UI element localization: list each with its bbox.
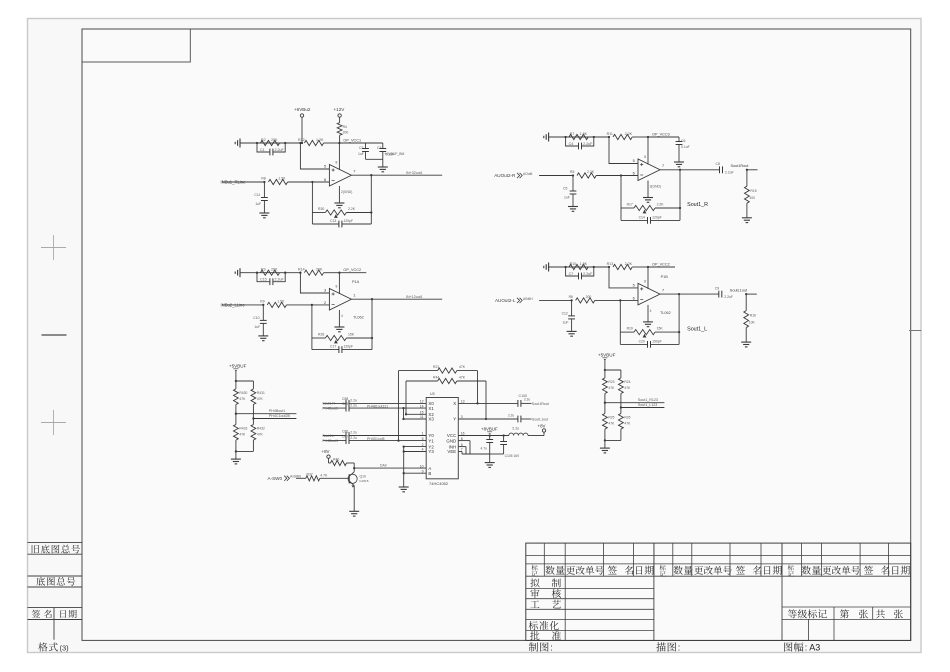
capacitor C88 2.2u (X0 input) (323, 402, 346, 404)
wire divL tap2 (253, 418, 296, 420)
svg-text:Sout1-R: Sout1-R (322, 402, 335, 406)
resistor R4 200 (337, 123, 342, 136)
wire amp1 to pin- (288, 181, 330, 183)
label 第张 (840, 609, 849, 618)
wire amp3 output (351, 298, 442, 300)
svg-text:TL062: TL062 (353, 316, 364, 320)
node amp4 bias-b (593, 266, 595, 268)
node amp3 bias-c (299, 272, 301, 274)
svg-text:: A3: : A3 (805, 643, 821, 653)
capacitor C17 120pF (312, 349, 372, 351)
svg-text:R37: R37 (307, 473, 313, 477)
svg-text:A-SW0: A-SW0 (268, 476, 283, 481)
wire OP_VCC3 stub (648, 136, 679, 138)
svg-text:R13: R13 (607, 262, 614, 266)
svg-text:R3: R3 (261, 268, 266, 272)
svg-text:47K: 47K (257, 397, 264, 401)
right margin middle mark (909, 330, 922, 332)
svg-text:47K: 47K (239, 397, 246, 401)
svg-text:6: 6 (324, 178, 326, 182)
capacitor C12 1uF (571, 300, 573, 316)
row label 标准化 (529, 621, 538, 630)
svg-text:AxSW0: AxSW0 (290, 474, 301, 478)
svg-text:U3: U3 (430, 392, 435, 396)
resistor R3 20K (260, 270, 279, 275)
resistor R430 47K (235, 381, 237, 389)
svg-text:Sout1-L: Sout1-L (322, 434, 334, 438)
ground amp4 load (745, 328, 747, 343)
svg-text:2.2uF: 2.2uF (275, 278, 285, 282)
resistor R12 1.2K (304, 140, 323, 145)
IC U3 74HC4052 body (426, 398, 458, 479)
node amp4 fb-in (619, 299, 621, 301)
svg-text:R8: R8 (261, 177, 265, 181)
svg-text:Sout1_L: Sout1_L (687, 326, 707, 332)
svg-text:2.2u: 2.2u (512, 426, 519, 430)
svg-text:Sout1_R123: Sout1_R123 (638, 398, 658, 402)
wire X2 pin stub (406, 413, 426, 415)
svg-text:C20: C20 (639, 339, 645, 343)
svg-text:2.2uF: 2.2uF (583, 272, 593, 276)
wire amp4 pot to out (655, 331, 679, 333)
node amp2 fb-out (679, 207, 681, 209)
svg-text:5: 5 (633, 283, 635, 287)
ground amp3 op-amp (334, 326, 344, 328)
wire amp1 fb right (370, 175, 372, 224)
svg-text:DA0: DA0 (380, 464, 387, 468)
wire amp4 output (660, 293, 679, 295)
node amp1 fb-out (370, 211, 372, 213)
resistor R23 47K (604, 370, 606, 378)
svg-text:GND: GND (446, 438, 456, 443)
node amp1 in (263, 181, 265, 183)
wire amp1 input (222, 181, 264, 183)
wire base input (296, 477, 306, 479)
wire amp3 pin+ route (300, 273, 329, 293)
left margin sign/date divider (53, 608, 55, 640)
label 日期 (60, 610, 66, 618)
header 更改单号 group3 (822, 566, 831, 575)
svg-text:1uF: 1uF (563, 320, 569, 324)
svg-text:X3: X3 (428, 417, 434, 422)
wire emitter (353, 486, 355, 512)
ground amp2 op-amp (643, 197, 653, 199)
node divL tap1 (235, 413, 237, 415)
svg-text:R4: R4 (343, 125, 347, 129)
wire gnd drop (489, 454, 491, 463)
svg-text:PH4Bout1: PH4Bout1 (269, 409, 285, 413)
transistor Q10 (348, 474, 357, 483)
node amp2 bias-a (564, 136, 566, 138)
svg-text:IN+32out1: IN+32out1 (406, 171, 423, 175)
resistor R11 2.2K (613, 134, 632, 139)
svg-text:5: 5 (633, 159, 635, 163)
ground amp2 bias (548, 133, 550, 142)
header 更改单号 group2 (694, 566, 703, 575)
ground amp1 input cap (259, 212, 269, 214)
svg-text:OP_VCC2: OP_VCC2 (343, 268, 361, 272)
svg-text:C13: C13 (330, 219, 336, 223)
svg-text:74HC4052: 74HC4052 (429, 481, 449, 486)
left margin cell lines (28, 541, 83, 543)
resistor R8 1.5K (268, 179, 287, 184)
wire divR tap2 (621, 407, 665, 409)
ground amp1 op-amp (334, 202, 344, 204)
node Y2 gnd branch (403, 445, 405, 447)
node X1 branch (402, 407, 404, 409)
svg-text:47K: 47K (624, 422, 631, 426)
capacitor C8 2.2uF (680, 169, 719, 171)
svg-text:7: 7 (662, 288, 664, 292)
wire amp2 pin+ route (609, 137, 638, 164)
svg-text:R433: R433 (239, 427, 247, 431)
svg-text:R6: R6 (569, 295, 573, 299)
svg-text:120pF: 120pF (344, 219, 354, 223)
left margin middle mark (42, 334, 67, 336)
wire to base (320, 477, 349, 479)
node amp3 out (371, 298, 373, 300)
node collector/A (353, 467, 355, 469)
svg-text::: : (550, 643, 553, 653)
node amp2 fb-in (620, 174, 622, 176)
svg-text:2.2K: 2.2K (625, 132, 633, 136)
label 描图 (656, 642, 665, 651)
wire amp1 bias row (240, 142, 300, 144)
wire loop1 right (477, 371, 479, 404)
node divL tap2 (252, 417, 254, 419)
svg-text:150pF: 150pF (652, 339, 662, 343)
wire R430 mid (235, 405, 237, 425)
ground amp2 input cap (568, 206, 578, 208)
svg-text:AOut6: AOut6 (523, 172, 533, 176)
node Y1 loop junction (397, 439, 399, 441)
wire amp2 gnd pin (647, 181, 649, 198)
wire divL bottom (235, 440, 237, 459)
wire X3 pin stub (404, 418, 427, 420)
node amp2 bias-b (593, 136, 595, 138)
capacitor C87 2.2u (Y1 input) (323, 440, 346, 442)
wire amp3 to vcc node (324, 272, 340, 274)
capacitor C86 2.2u (Y0 input) (323, 435, 346, 437)
svg-text:SoutL1out: SoutL1out (730, 289, 748, 293)
capacitor C13 120pF (312, 223, 371, 225)
svg-text:Y: Y (453, 417, 456, 422)
svg-text:C88: C88 (342, 397, 348, 401)
svg-text:15K: 15K (348, 333, 355, 337)
svg-text:8: 8 (644, 279, 646, 283)
svg-text:2.2u: 2.2u (350, 436, 357, 440)
ground divR (600, 447, 610, 449)
wire amp3 pot to out (346, 337, 372, 339)
wire GND pin (458, 440, 470, 442)
header 数量 group3 (802, 566, 811, 575)
svg-text:P1B: P1B (661, 275, 669, 279)
node divR tap2 (620, 406, 622, 408)
row label 工艺 (530, 601, 539, 608)
wire amp1 fb left (311, 182, 313, 224)
svg-text:C10: C10 (253, 316, 259, 320)
wire amp4 bias row (549, 266, 609, 268)
svg-text:C86: C86 (342, 429, 348, 433)
capacitor C6 0.1uF (678, 137, 680, 142)
op-amp P1A (329, 289, 351, 311)
node amp2 load (746, 169, 748, 171)
label 制图 (529, 642, 538, 651)
label 等级标记 (788, 609, 797, 618)
node amp2 opvcc (647, 136, 649, 138)
ground amp4 input cap (567, 330, 577, 332)
label 签名 (32, 610, 41, 618)
svg-text:Y3: Y3 (428, 449, 434, 454)
svg-text:2: 2 (324, 301, 326, 305)
svg-text:2.2K: 2.2K (348, 207, 356, 211)
capacitor C105 16V (503, 436, 505, 442)
wire divR bottom (604, 429, 606, 448)
wire gnd bus (462, 453, 490, 455)
svg-text:R12: R12 (298, 138, 305, 142)
svg-text:R14: R14 (298, 268, 305, 272)
capacitor C15 2.2uF (257, 273, 285, 282)
svg-text:2.2K: 2.2K (587, 170, 595, 174)
wire X out tail (521, 402, 532, 404)
header 数量 group1 (545, 566, 554, 575)
svg-text:47K: 47K (459, 365, 466, 369)
ground amp4 bias (548, 263, 550, 272)
svg-text:C89: C89 (342, 402, 348, 406)
resistor R21 47K (438, 368, 457, 373)
wire VCC row (458, 435, 509, 437)
wire amp3 to pin- (287, 304, 330, 306)
svg-text:2.2uF: 2.2uF (724, 295, 733, 299)
svg-text:R30: R30 (318, 207, 324, 211)
ground vcc cap (674, 161, 684, 163)
node divL bottom (235, 450, 237, 452)
wire amp4 to pin- (595, 299, 638, 301)
svg-text:4: 4 (650, 309, 652, 313)
resistor R26 47K (619, 414, 624, 430)
header 标记 group3 (788, 565, 794, 571)
svg-text:2.2K: 2.2K (657, 203, 665, 207)
svg-text:1.5K: 1.5K (277, 300, 285, 304)
svg-text:100: 100 (749, 196, 755, 200)
wire amp4 fb right (678, 294, 680, 344)
svg-text:IN+12out1: IN+12out1 (406, 295, 423, 299)
svg-text:7: 7 (353, 169, 355, 173)
svg-text:+6VBu2: +6VBu2 (294, 107, 311, 112)
svg-text:PH4D1out5: PH4D1out5 (367, 437, 385, 441)
svg-text:R15: R15 (750, 189, 756, 193)
svg-text:VEE: VEE (447, 449, 456, 454)
capacitor C7 2.2uF (566, 267, 594, 276)
svg-text:8: 8 (336, 285, 338, 289)
svg-text:R2: R2 (261, 138, 266, 142)
svg-text:4.7u: 4.7u (480, 446, 487, 450)
resistor R6 200 (576, 298, 595, 303)
svg-text:1uF: 1uF (564, 196, 570, 200)
node amp1 bias-a (256, 142, 258, 144)
svg-text:R26: R26 (624, 416, 630, 420)
resistor R7 1.5K (569, 134, 588, 139)
wire Y2/B ground rail (403, 447, 405, 487)
node +6VBu2 junction (301, 142, 303, 144)
svg-text:1: 1 (353, 293, 355, 297)
capacitor C5 1uF (572, 176, 574, 192)
svg-text:Sout1Rout: Sout1Rout (532, 402, 549, 406)
svg-text:47K: 47K (239, 433, 246, 437)
svg-text:+5VBUF: +5VBUF (229, 363, 247, 368)
resistor R431 47K (252, 381, 254, 389)
svg-text:Y1: Y1 (428, 438, 434, 443)
revision group separators full height (653, 543, 655, 640)
svg-text:Q10: Q10 (360, 475, 367, 479)
svg-text:Sout1_R: Sout1_R (687, 202, 708, 208)
wire amp3 pot row (312, 337, 326, 339)
label 底图总号 (36, 577, 45, 586)
resistor R44 47K (438, 378, 457, 383)
svg-text:AIN6H: AIN6H (523, 297, 533, 301)
left margin centering cross lower (41, 410, 66, 435)
svg-text:R9: R9 (260, 300, 264, 304)
node loop1-X (476, 402, 478, 404)
svg-text:PH4Bout1: PH4Bout1 (322, 406, 338, 410)
capacitor C1 2.2uF (257, 143, 285, 152)
svg-text:1.5K: 1.5K (580, 262, 588, 266)
wire R4 to OP_VCC1 (339, 135, 341, 143)
resistor R5 2.2K (577, 173, 596, 178)
svg-text:C2: C2 (359, 146, 363, 150)
svg-text:7: 7 (662, 164, 664, 168)
node amp3 opvcc (338, 272, 340, 274)
svg-text:OP_VCC3: OP_VCC3 (652, 132, 670, 136)
node B join (403, 472, 405, 474)
resistor R10 1.5K (569, 264, 588, 269)
node X3 join (402, 418, 404, 420)
wire Y3 pin stub (404, 451, 427, 453)
node amp1 fb-in (311, 181, 313, 183)
resistor R13 2.2K (613, 264, 632, 269)
svg-text:R26: R26 (318, 333, 324, 337)
wire amp1 pin+ route (300, 143, 329, 169)
svg-text:C11: C11 (254, 193, 260, 197)
svg-text:1uF: 1uF (358, 152, 364, 156)
ground amp1 bias (239, 139, 241, 148)
inner drawing frame (82, 29, 911, 640)
svg-text:C105 16V: C105 16V (505, 454, 520, 458)
wire caps join (366, 158, 383, 160)
wire amp2 input (539, 175, 573, 177)
op-amp P1B (638, 283, 660, 305)
svg-text:+6VBUF_BM: +6VBUF_BM (385, 152, 405, 156)
wire amp4 V+ pin 8 (647, 267, 649, 289)
svg-text:+5VBUF: +5VBUF (598, 352, 616, 357)
wire INH pin (458, 446, 466, 448)
wire amp3 fb left (311, 305, 313, 350)
node amp4 fb-out (678, 331, 680, 333)
capacitor C100 2.2u (517, 400, 519, 407)
node amp4 opvcc (647, 266, 649, 268)
svg-text:1.5K: 1.5K (580, 132, 588, 136)
wire caps join (490, 453, 504, 455)
row label 拟制 (530, 578, 539, 587)
wire coil to +8V (528, 435, 544, 437)
resistor R432 47K (251, 425, 256, 441)
svg-text:C1: C1 (260, 148, 265, 152)
svg-text:R431: R431 (257, 391, 265, 395)
svg-text:1uF: 1uF (254, 325, 260, 329)
svg-text:2.2uF: 2.2uF (583, 142, 593, 146)
svg-text:OP_VCC2: OP_VCC2 (652, 262, 670, 266)
header 日期 group1 (636, 566, 642, 574)
svg-text:+8V: +8V (538, 423, 546, 428)
header 日期 group2 (764, 566, 770, 574)
wire Y out (458, 418, 518, 420)
svg-text:1.2K: 1.2K (316, 138, 324, 142)
svg-text:C8: C8 (716, 162, 720, 166)
wire loop2 top (406, 380, 438, 382)
svg-text:X: X (453, 401, 456, 406)
node amp2 bias-c (608, 136, 610, 138)
ground amp3 bias (239, 268, 241, 277)
wire amp4 pot row (620, 331, 634, 333)
wire R23 mid (604, 394, 606, 414)
svg-text:47K: 47K (624, 386, 631, 390)
resistor R433 47K (234, 425, 239, 441)
capacitor C4 2.2uF (566, 137, 594, 146)
node amp1 out (370, 174, 372, 176)
svg-text:B: B (428, 471, 431, 476)
wire R431 mid (252, 405, 254, 425)
header 签名 group3 (864, 566, 873, 575)
capacitor C3 0.1uF (382, 143, 384, 149)
label 格式(3) (38, 642, 47, 651)
header 签名 group2 (736, 566, 745, 575)
capacitor C89 2.2u (X1 input) (323, 407, 346, 409)
row label 审核 (530, 589, 539, 598)
capacitor C14 120pF (621, 219, 680, 221)
resistor R37 4.7K (306, 476, 320, 481)
svg-text:2.2u: 2.2u (350, 399, 357, 403)
svg-text:C9: C9 (715, 287, 719, 291)
capacitor C2 1uF (365, 143, 367, 149)
svg-text:R432: R432 (257, 427, 265, 431)
power terminal +8V (542, 429, 545, 432)
resistor R25 47K (603, 414, 608, 430)
svg-text:P1A: P1A (352, 280, 360, 284)
op-amp (638, 159, 660, 181)
svg-text:PH4B1out121: PH4B1out121 (367, 404, 388, 408)
svg-text:R11: R11 (607, 132, 613, 136)
svg-text:+12V: +12V (334, 107, 346, 112)
wire amp4 pin+ route (609, 267, 638, 288)
svg-text:Sout1_L123: Sout1_L123 (638, 403, 657, 407)
wire Y out tail (521, 418, 532, 420)
svg-text:2.2u: 2.2u (350, 403, 357, 407)
svg-text:AUOut2-R: AUOut2-R (494, 173, 516, 178)
wire amp2 pot to out (655, 207, 680, 209)
svg-text:3: 3 (324, 289, 326, 293)
node loop2-Y (485, 418, 487, 420)
svg-text:R21: R21 (433, 365, 439, 369)
wire amp3 bias row (240, 272, 300, 274)
svg-text:X1: X1 (428, 406, 434, 411)
ground mux rail (399, 486, 409, 488)
svg-text:R10: R10 (570, 262, 577, 266)
svg-text:120pF: 120pF (344, 345, 354, 349)
resistor R40 10K (329, 462, 331, 464)
ground emitter (349, 510, 359, 512)
capacitor C101 2.2u (517, 416, 519, 423)
wire loop1 left (398, 371, 400, 441)
